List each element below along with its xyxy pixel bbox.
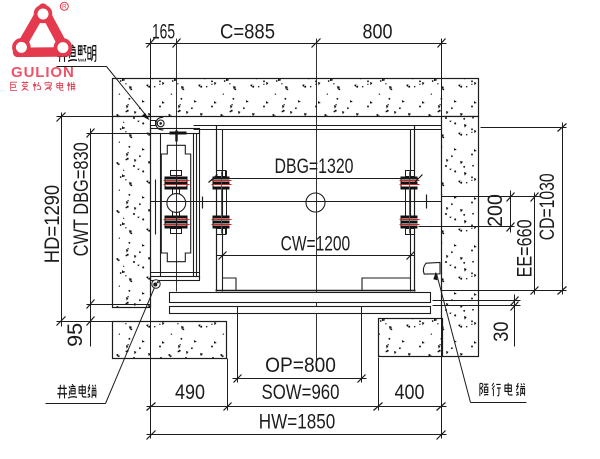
top dimension line <box>146 39 447 48</box>
dim text CW=1200 <box>281 231 351 255</box>
dim text OP=800 <box>265 354 336 377</box>
car sill bar <box>170 293 431 303</box>
dim text 165 <box>152 20 175 44</box>
svg-text:800: 800 <box>363 20 393 44</box>
car guide rail left: clip bottom cap <box>217 229 226 235</box>
svg-text:R: R <box>62 4 67 11</box>
car guide rail right: clip top <box>400 177 420 190</box>
vertical centerline CWT <box>176 39 178 292</box>
counterweight bottom beam line <box>151 272 200 274</box>
30 dimension line <box>511 295 519 347</box>
dim text C=885 <box>220 21 275 44</box>
dim text 490 <box>175 381 205 405</box>
logo triangle <box>18 8 67 52</box>
cabin front wall left segment <box>222 278 236 291</box>
CWT rail clip top <box>164 173 190 194</box>
label traveling cable (suixing dianlan) <box>480 383 525 396</box>
dim text 95 <box>63 323 87 347</box>
DBG dimension line <box>209 175 423 183</box>
CWT centerline bold dash <box>175 131 177 142</box>
counterweight CWT bottom cap plate <box>151 277 200 281</box>
arrowhead traveling cable <box>433 272 437 281</box>
landing sill bar <box>170 307 431 314</box>
svg-text:165: 165 <box>152 20 175 44</box>
car guide rail left: clip top <box>212 177 232 190</box>
leader for traveling cable <box>437 274 527 403</box>
svg-text:200: 200 <box>485 194 508 227</box>
counterweight frame (notched) <box>161 145 190 261</box>
svg-text:CD=1030: CD=1030 <box>535 173 559 240</box>
svg-text:CW=1200: CW=1200 <box>281 231 351 255</box>
dim text CD=1030 <box>535 173 559 240</box>
CWT rail clip top cap <box>171 171 182 176</box>
sill gap lines through right wall <box>433 300 521 302</box>
HD dimension line <box>57 113 113 327</box>
vertical centerline main <box>316 39 318 372</box>
svg-text:EE=660: EE=660 <box>513 219 537 277</box>
logo vertex circle bottom-left <box>14 40 29 55</box>
svg-text:SOW=960: SOW=960 <box>262 381 340 404</box>
counterweight CWT side uprights <box>156 131 200 279</box>
200 dimension line <box>419 191 541 233</box>
label shaft lighting (jingdao zhaoming) <box>57 45 96 62</box>
car guide rail left: clip top cap <box>217 171 226 177</box>
logo registered mark <box>60 2 68 10</box>
car guide rail right: rail edge verticals <box>405 171 407 235</box>
car guide rail right: clip bottom cap <box>406 229 415 235</box>
leader for shaft lighting <box>57 67 149 119</box>
CW dimension line <box>217 252 415 260</box>
arrowhead shaft lighting <box>142 113 150 120</box>
car guide rail right: clip top cap <box>406 171 415 177</box>
svg-text:CWT DBG=830: CWT DBG=830 <box>69 142 92 256</box>
svg-text:HW=1850: HW=1850 <box>259 411 335 434</box>
svg-text:GULION: GULION <box>11 64 75 81</box>
dim text 800 <box>363 20 393 44</box>
wall bottom-left block (concrete) <box>113 322 227 359</box>
cabin top inner line <box>194 129 442 131</box>
shaft inner top edge / HD extension <box>57 116 442 118</box>
logo vertex circle bottom-right <box>56 40 71 55</box>
CWT DBG dimension line <box>87 129 161 347</box>
dim text HD=1290 <box>41 185 64 263</box>
CWT rail clip bottom cap <box>171 229 182 234</box>
svg-text:DBG=1320: DBG=1320 <box>275 154 354 178</box>
CWT rail web lines <box>172 190 174 216</box>
svg-text:C=885: C=885 <box>220 21 275 44</box>
shaft cable symbol <box>152 280 160 288</box>
SOW dimension line <box>147 358 447 411</box>
cabin top outer line <box>194 125 442 127</box>
car guide rail left: red centerline <box>221 172 223 234</box>
leader for shaft cable <box>46 288 155 404</box>
svg-text:OP=800: OP=800 <box>265 354 336 377</box>
horizontal centerline <box>151 195 442 209</box>
counterweight CWT top cap plate <box>151 129 200 134</box>
dim text 200 <box>485 194 508 227</box>
dim text HW=1850 <box>259 411 335 434</box>
car guide rail left: rail edge verticals <box>216 171 218 235</box>
dim text 30 <box>490 321 513 341</box>
car guide rail right: red centerline <box>409 172 411 234</box>
dim text DBG=1320 <box>275 154 354 178</box>
dim text EE=660 <box>513 219 537 277</box>
svg-text:400: 400 <box>395 381 425 405</box>
label shaft cable (jingdao dianlan) <box>57 384 96 398</box>
HW dimension line <box>147 431 447 440</box>
svg-text:30: 30 <box>490 321 513 341</box>
cabin front wall right segment <box>362 278 410 291</box>
dim text 400 <box>395 381 425 405</box>
EE dimension line <box>531 193 539 295</box>
CD dimension line <box>442 123 567 295</box>
CWT sheave circle <box>167 194 186 213</box>
wall left (concrete) <box>113 117 151 308</box>
dim text SOW=960 <box>262 381 340 404</box>
logo chinese name (ju ling si jia dian ti) <box>11 82 76 91</box>
car guide rail right: clip bottom <box>400 216 420 229</box>
dim text CWT DBG=830 <box>69 142 92 256</box>
CWT cap dark segment <box>170 132 187 135</box>
CWT rail clip bottom <box>164 211 190 233</box>
svg-text:HD=1290: HD=1290 <box>41 185 64 263</box>
extension line x=150.3 (wall inner left) <box>150 39 152 439</box>
cabin U1 outline <box>216 126 416 292</box>
wall bottom-right block (concrete) <box>379 319 443 357</box>
svg-text:490: 490 <box>175 381 205 405</box>
extension line x=441.6 (wall inner right) <box>441 39 443 439</box>
car guide rail left: clip bottom <box>212 216 232 229</box>
wall top (concrete) <box>113 79 479 117</box>
traveling cable flag <box>423 262 440 274</box>
car center circle <box>306 193 325 212</box>
wall right (concrete) <box>442 117 479 357</box>
OP dimension line <box>233 307 367 383</box>
shaft lighting fixture <box>151 117 165 130</box>
logo vertex circle top <box>36 7 51 22</box>
svg-text:95: 95 <box>63 323 87 347</box>
